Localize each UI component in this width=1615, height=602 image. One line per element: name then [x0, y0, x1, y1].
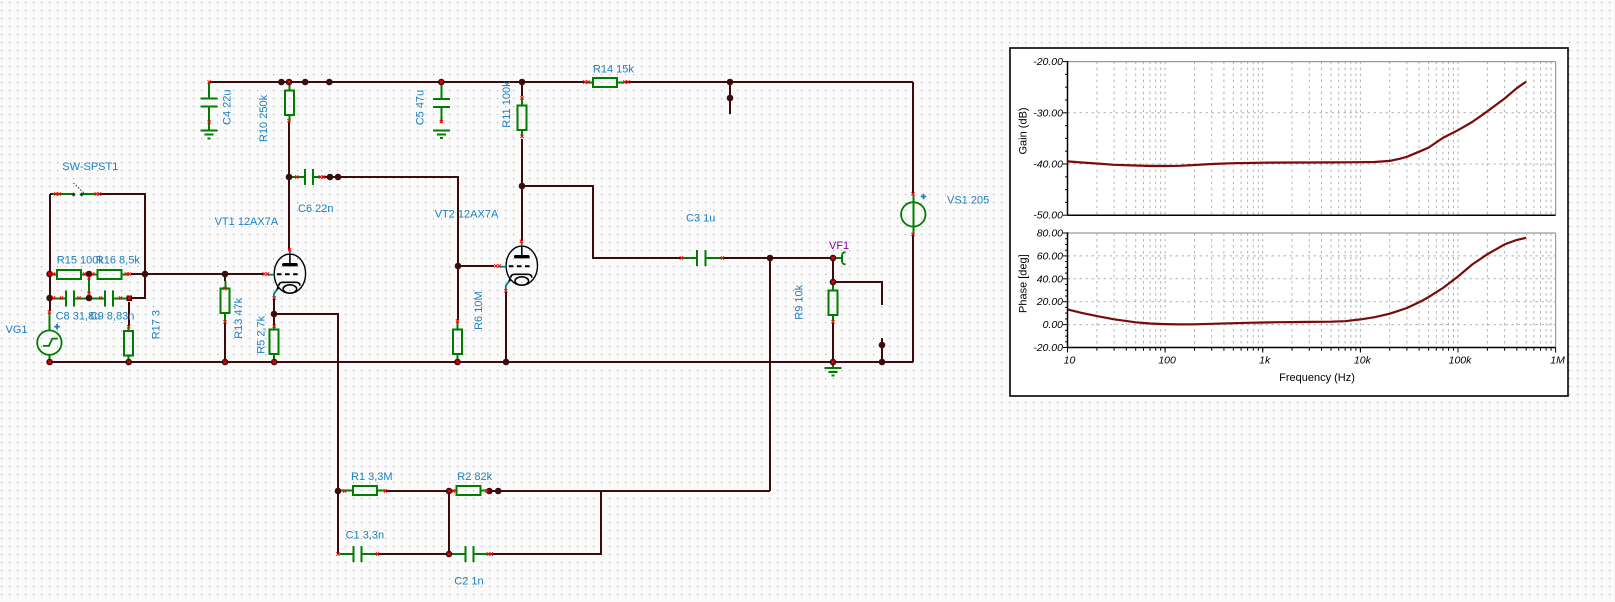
svg-text:C5 47u: C5 47u [415, 90, 427, 125]
svg-text:C4 22u: C4 22u [222, 90, 234, 125]
svg-text:1k: 1k [1259, 355, 1271, 367]
svg-text:R17 3: R17 3 [151, 310, 163, 339]
svg-text:-50.00: -50.00 [1033, 210, 1063, 222]
svg-text:40.00: 40.00 [1037, 273, 1063, 285]
svg-text:VT1 12AX7A: VT1 12AX7A [215, 216, 279, 228]
svg-text:C9 8,83n: C9 8,83n [90, 311, 135, 323]
svg-text:R2 82k: R2 82k [457, 471, 492, 483]
svg-text:VF1: VF1 [829, 240, 849, 252]
svg-text:R16 8,5k: R16 8,5k [96, 255, 141, 267]
svg-text:0.00: 0.00 [1043, 319, 1064, 331]
svg-text:R10 250k: R10 250k [258, 94, 270, 142]
svg-text:-20.00: -20.00 [1033, 342, 1063, 354]
svg-text:80.00: 80.00 [1037, 228, 1063, 240]
svg-text:Phase [deg]: Phase [deg] [1017, 254, 1029, 313]
svg-text:R14 15k: R14 15k [593, 63, 634, 75]
svg-text:C6 22n: C6 22n [298, 203, 333, 215]
svg-text:R11 100k: R11 100k [501, 81, 513, 128]
svg-text:R5 2,7k: R5 2,7k [255, 315, 267, 353]
svg-text:10: 10 [1064, 355, 1076, 367]
svg-text:VT2 12AX7A: VT2 12AX7A [435, 209, 499, 221]
svg-text:C3 1u: C3 1u [686, 213, 715, 225]
svg-text:R1 3,3M: R1 3,3M [351, 471, 393, 483]
svg-text:SW-SPST1: SW-SPST1 [62, 161, 118, 173]
svg-text:Frequency (Hz): Frequency (Hz) [1279, 372, 1355, 384]
svg-text:R13 47k: R13 47k [233, 297, 245, 338]
svg-text:60.00: 60.00 [1037, 250, 1063, 262]
svg-text:-30.00: -30.00 [1033, 107, 1063, 119]
svg-text:100: 100 [1158, 355, 1176, 367]
svg-text:10k: 10k [1354, 355, 1372, 367]
svg-text:Gain (dB): Gain (dB) [1017, 107, 1029, 154]
svg-text:100k: 100k [1449, 355, 1473, 367]
svg-text:-20.00: -20.00 [1033, 56, 1063, 68]
svg-text:C1 3,3n: C1 3,3n [346, 530, 385, 542]
svg-text:R6 10M: R6 10M [473, 291, 485, 330]
svg-text:-40.00: -40.00 [1033, 159, 1063, 171]
svg-text:C2 1n: C2 1n [454, 576, 483, 588]
svg-text:VG1: VG1 [6, 324, 28, 336]
svg-text:20.00: 20.00 [1036, 296, 1063, 308]
svg-text:VS1 205: VS1 205 [947, 195, 989, 207]
svg-text:R9 10k: R9 10k [793, 284, 805, 319]
svg-text:1M: 1M [1550, 355, 1565, 367]
